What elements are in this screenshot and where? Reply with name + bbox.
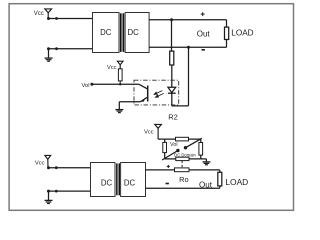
ground (bottom-left)	[45, 191, 53, 203]
wiper arrow 1 (lower-left)	[162, 149, 179, 160]
svg-text:Vol: Vol	[81, 83, 89, 89]
wire Vcc to DC block (bottom)	[49, 167, 91, 169]
LED D1	[168, 87, 176, 106]
wiper arrow 2 (upper-right)	[184, 138, 202, 149]
resistor LOAD (bottom)	[218, 172, 222, 186]
wire bridge top	[158, 138, 201, 140]
wire Vcc to DC block	[49, 18, 93, 20]
wire ground to DC block	[49, 48, 93, 50]
ground (top-left)	[45, 49, 53, 62]
wire + output rail (top)	[149, 19, 226, 21]
svg-text:Out: Out	[199, 180, 213, 189]
transformer isolation bars (bottom)	[116, 163, 120, 195]
node dot on ground input wire	[55, 47, 58, 50]
optocoupler U2 dash-dot box	[134, 80, 179, 105]
wire from + rail down to resistor R2	[171, 20, 173, 51]
transistor Q1 emitter arrowhead	[141, 98, 145, 102]
resistor R3 body (pull-up)	[118, 69, 122, 81]
svg-text:Vol: Vol	[170, 142, 178, 148]
wire bridge left branch	[164, 139, 166, 142]
label - (top rail)	[202, 49, 205, 51]
resistor LOAD (top)	[225, 27, 229, 39]
ground (emitter)	[115, 110, 123, 113]
resistor bridge left body	[163, 142, 167, 152]
wire bridge right lower lead	[200, 155, 202, 159]
transformer isolation bars (top)	[120, 13, 124, 52]
node dot Vol terminal	[90, 83, 93, 86]
wire resistor R2 to LED anode	[171, 65, 173, 87]
wire LOAD right leg (top)	[226, 20, 228, 48]
phototransistor Q1	[139, 84, 148, 102]
resistor bridge right body	[199, 143, 203, 156]
svg-text:Vcc: Vcc	[107, 65, 117, 71]
wire bridge bottom	[165, 158, 201, 160]
light arrow 2	[156, 93, 164, 97]
resistor bridge top body	[176, 137, 189, 141]
wire ground to DC block (bottom)	[49, 190, 91, 192]
wire Vol line	[92, 83, 139, 85]
svg-text:DC: DC	[124, 178, 136, 187]
svg-text:LOAD: LOAD	[225, 177, 248, 187]
resistor bridge bottom body	[176, 157, 189, 160]
node dot pull-up junction	[119, 83, 121, 85]
wire return leg from - rail	[172, 47, 189, 106]
wire LOAD right leg (bottom)	[219, 170, 221, 188]
wire emitter to ground	[119, 102, 140, 110]
node dot on ground input wire (bottom)	[55, 190, 58, 193]
wire - output rail (top)	[149, 46, 226, 48]
svg-text:R2: R2	[168, 113, 178, 122]
wire + output rail (bottom) through Ro	[146, 169, 220, 171]
resistor R2 body	[170, 51, 174, 65]
resistor Ro body	[175, 168, 190, 172]
wire - output rail (bottom)	[146, 187, 220, 189]
node dot at ground corner (bottom)	[47, 190, 50, 193]
border frame	[9, 4, 293, 211]
node B junction dot on - rail	[187, 46, 190, 49]
svg-text:DC: DC	[101, 178, 113, 187]
node dot at Vcc corner	[47, 17, 50, 20]
node dot at Vcc corner (bottom)	[47, 166, 50, 169]
label + (bottom rail)	[167, 165, 170, 168]
node dot at ground corner	[47, 47, 50, 50]
wire bridge left lower lead	[164, 153, 166, 159]
svg-text:LOAD: LOAD	[231, 28, 253, 37]
label - (bottom rail)	[166, 183, 169, 185]
svg-text:DC: DC	[127, 28, 139, 37]
power symbol Vcc (top-left)	[45, 9, 52, 19]
svg-text:Ro: Ro	[179, 175, 188, 184]
svg-text:Out: Out	[197, 29, 211, 38]
light arrow 1	[154, 91, 162, 95]
DC-DC converter block U3 (secondary)	[121, 163, 146, 197]
wire bridge right branch	[200, 139, 202, 142]
node dot on Vcc input wire	[55, 17, 58, 20]
node dot on Vcc input wire (bottom)	[55, 166, 58, 169]
dashed coupling to Ro	[181, 161, 183, 168]
DC-DC converter block U1 (primary)	[93, 13, 120, 53]
svg-text:DC Domain: DC Domain	[174, 152, 196, 157]
ground (bridge)	[203, 162, 211, 165]
svg-text:Vcc: Vcc	[35, 161, 45, 167]
svg-text:DC: DC	[100, 28, 112, 37]
DC-DC converter block U1 (secondary)	[125, 13, 149, 53]
wire pull-up to Vol line	[119, 81, 121, 84]
node A junction dot on + rail	[170, 18, 173, 21]
svg-text:Vcc: Vcc	[144, 130, 154, 136]
svg-text:Vcc: Vcc	[34, 11, 44, 17]
power symbol Vcc (bridge)	[155, 124, 162, 139]
label + (top rail)	[201, 12, 205, 16]
DC-DC converter block U3 (primary)	[91, 163, 116, 197]
wire to bridge ground	[201, 159, 207, 162]
power symbol Vcc (middle)	[117, 61, 123, 69]
power symbol Vcc (bottom-left)	[45, 155, 51, 167]
